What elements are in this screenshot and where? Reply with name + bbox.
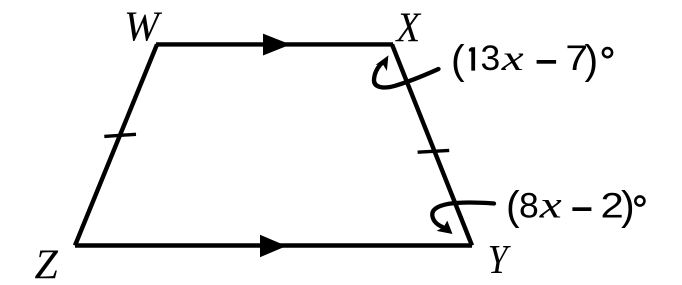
svg-text:X: X [395,4,422,51]
tick mark on WZ [104,134,136,136]
svg-text:Z: Z [35,243,59,285]
svg-text:): ) [585,36,599,82]
angle label2: minus sign [572,207,591,211]
arrowhead of curved arrow at Y [437,221,453,234]
angle label2: degree circle [635,196,644,205]
angle label1: degree circle [603,48,612,57]
svg-text:(: ( [506,183,520,229]
side ZY (bottom parallel side) [75,243,472,247]
angle label1: minus sign [537,60,557,64]
arrowhead of curved arrow at X [376,55,389,71]
curved angle arrow at X [374,64,439,88]
tick mark on XY [418,150,450,152]
side XY (right leg) [392,44,472,245]
svg-text:): ) [621,183,635,229]
svg-text:x: x [539,184,563,226]
svg-text:x: x [501,38,524,78]
svg-text:(: ( [451,36,465,82]
svg-text:W: W [124,5,163,51]
side WZ (left leg) [75,44,157,245]
curved angle arrow at Y [432,203,494,227]
parallel-mark arrow on WX [263,34,291,56]
angle label1: digits 13 [469,47,475,70]
svg-text:Y: Y [488,238,511,283]
side WX (top parallel side) [156,42,393,46]
svg-text:8: 8 [519,186,539,226]
svg-text:3: 3 [481,38,501,78]
parallel-mark arrow on ZY [260,235,287,257]
